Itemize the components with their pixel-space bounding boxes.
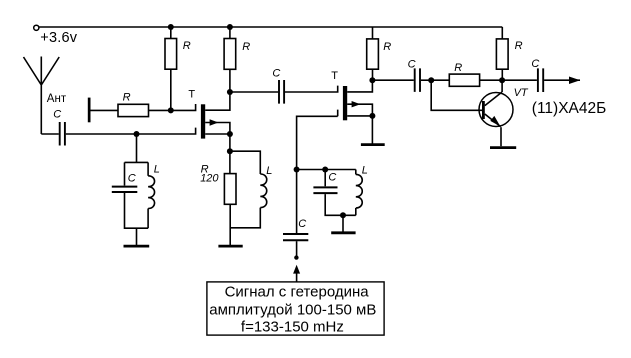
svg-text:T: T	[188, 89, 195, 101]
svg-text:C: C	[53, 109, 61, 121]
transistor T1 source	[205, 133, 230, 135]
wire T1 drain to C1	[230, 91, 278, 93]
transistor VT emitter diagonal with arrow	[485, 114, 501, 127]
transistor T1 channel bar	[201, 104, 205, 138]
resistor R2	[224, 39, 236, 70]
svg-text:f=133-150 mHz: f=133-150 mHz	[241, 318, 344, 335]
wire C injection to node	[296, 241, 298, 256]
transistor VT collector diagonal	[485, 92, 502, 106]
node tank2 ground tap	[340, 212, 346, 218]
ground tank2	[331, 231, 355, 234]
power terminal +3.6v	[34, 25, 39, 30]
wire heterodyne node to tank2	[297, 169, 356, 171]
transistor VT base bar	[482, 101, 485, 119]
arrow injection up	[293, 265, 300, 274]
svg-text:C: C	[298, 218, 306, 230]
svg-text:R: R	[242, 41, 250, 53]
node heterodyne	[294, 167, 300, 173]
resistor R1 lead bottom	[170, 69, 172, 110]
capacitor C out	[538, 68, 543, 92]
svg-text:L: L	[266, 165, 272, 177]
svg-text:C: C	[328, 171, 336, 183]
wire L1 to bottom	[147, 209, 149, 229]
node tank2 top	[322, 167, 328, 173]
svg-text:C: C	[128, 172, 136, 184]
wire cap to gate2 T1	[66, 128, 196, 134]
resistor R1 lead top	[170, 27, 172, 39]
svg-text:VT: VT	[514, 87, 529, 99]
resistor R4 lead top	[501, 27, 503, 39]
wire top supply rail	[39, 26, 502, 28]
wire tank1 ground stub	[136, 228, 138, 245]
node T2 drain junction	[369, 77, 375, 83]
capacitor C tank1	[112, 187, 138, 192]
transistor T2 channel bar	[343, 86, 347, 120]
wire tank1 cap to bottom	[125, 193, 149, 228]
node rail-R2	[227, 24, 233, 30]
node T1 source tank tap	[227, 148, 233, 154]
svg-text:L: L	[362, 165, 368, 177]
capacitor C tank2	[313, 187, 337, 193]
signal source box	[207, 282, 384, 335]
resistor R3 lead bottom	[372, 69, 374, 80]
node T1 drain junction	[227, 89, 233, 95]
transistor VT circle	[479, 93, 513, 127]
resistor R2 lead top	[229, 27, 231, 39]
resistor R3	[367, 39, 379, 69]
svg-text:C: C	[272, 67, 280, 79]
capacitor C coupling 2	[415, 68, 420, 92]
wire R6 to collector node	[480, 79, 503, 81]
svg-text:R: R	[123, 91, 131, 103]
resistor R3 lead top	[372, 27, 374, 39]
wire bar to R5	[91, 109, 119, 111]
gate bias terminal bar	[88, 98, 91, 123]
inductor L1	[148, 176, 154, 209]
node gate1-R1	[168, 107, 174, 113]
node rail-R1	[168, 24, 174, 30]
ground T1 source	[218, 245, 242, 248]
wire collector node to VT	[501, 80, 503, 92]
capacitor C antenna	[60, 122, 65, 146]
svg-text:R: R	[454, 62, 462, 74]
node antenna tank tap	[134, 131, 140, 137]
wire tank1 right branch	[147, 162, 149, 175]
node T1 source junction	[227, 131, 233, 137]
wire C1 to gate1 T2	[285, 86, 338, 92]
node injection	[294, 255, 298, 259]
wire C2 to base node	[421, 79, 431, 81]
wire R120 to ground	[229, 204, 231, 245]
wire T2 drain node to C2	[372, 79, 413, 81]
ground VT emitter	[490, 146, 516, 149]
node collector	[499, 77, 505, 83]
resistor R2 lead bottom	[229, 69, 231, 92]
resistor R4	[496, 39, 508, 69]
wire collector node to C out	[502, 79, 537, 81]
wire source node to L2	[230, 151, 260, 174]
node base network top	[428, 77, 434, 83]
ground T2 source	[361, 143, 385, 146]
antenna	[24, 57, 60, 135]
wire tank2 cap branch bottom	[325, 194, 356, 215]
wire base node to R6	[431, 79, 449, 81]
svg-text:R: R	[383, 41, 391, 53]
node T2 source junction	[369, 113, 375, 119]
svg-text:T: T	[331, 70, 338, 82]
output arrow	[569, 77, 580, 85]
inductor L3	[356, 174, 362, 208]
wire C out to output arrow	[544, 79, 580, 81]
resistor R5	[118, 104, 149, 116]
transistor T2 source	[347, 115, 372, 117]
wire source node to R120	[229, 151, 231, 173]
transistor T2 drain	[347, 80, 372, 92]
resistor R6	[449, 74, 479, 86]
ground tank1	[124, 245, 150, 248]
wire T2 source to ground	[371, 116, 373, 144]
resistor R1	[165, 39, 177, 70]
wire VT emitter to ground	[500, 127, 502, 146]
wire antenna to cap	[41, 133, 59, 135]
wire L2 to bottom	[230, 208, 260, 228]
svg-text:+3.6v: +3.6v	[40, 30, 77, 46]
wire base feed	[431, 80, 482, 110]
wire tank2 ground stub	[342, 215, 344, 232]
transistor T1 substrate with arrow	[205, 123, 230, 135]
wire tank2 cap branch top	[324, 170, 326, 187]
wire tank2 L branch top	[355, 170, 357, 175]
transistor T1 drain	[205, 92, 230, 110]
svg-text:Сигнал с гетеродина: Сигнал с гетеродина	[225, 283, 370, 300]
capacitor C injection	[283, 234, 308, 240]
svg-text:(11)ХА42Б: (11)ХА42Б	[532, 100, 607, 117]
inductor L2	[260, 174, 266, 208]
wire tank1 feed	[125, 134, 149, 162]
wire heterodyne node down to C injection	[296, 170, 298, 234]
wire T2 gate2 to heterodyne node	[297, 110, 338, 170]
wire tank1 left branch	[124, 162, 126, 185]
svg-text:120: 120	[200, 172, 219, 184]
wire L3 to bottom	[355, 208, 357, 215]
wire T1 source down	[229, 134, 231, 151]
svg-text:Ант: Ант	[47, 93, 67, 105]
resistor R4 lead bottom	[501, 69, 503, 80]
svg-text:R: R	[183, 40, 191, 52]
svg-text:R: R	[515, 40, 523, 52]
capacitor C coupling 1	[279, 80, 284, 104]
svg-text:амплитудой 100-150 мВ: амплитудой 100-150 мВ	[209, 302, 376, 319]
svg-text:L: L	[154, 164, 160, 176]
svg-text:C: C	[531, 58, 539, 70]
transistor T2 substrate with arrow	[347, 104, 372, 116]
resistor R120	[224, 174, 236, 205]
wire R5 to gate1 T1	[149, 104, 196, 110]
